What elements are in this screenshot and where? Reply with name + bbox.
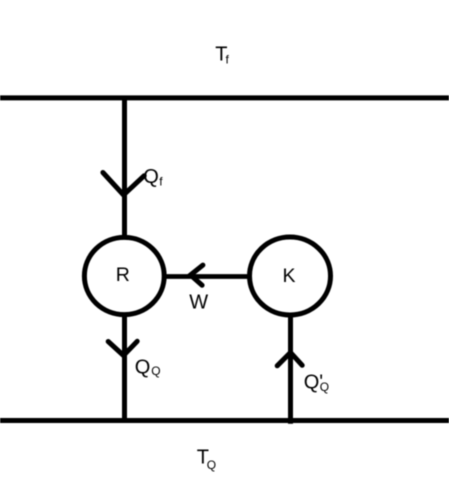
svg-text:K: K xyxy=(283,265,296,287)
svg-text:Q: Q xyxy=(320,380,329,394)
svg-text:Q: Q xyxy=(207,458,216,472)
svg-text:Q: Q xyxy=(143,166,159,188)
svg-text:Q: Q xyxy=(135,357,151,379)
svg-text:R: R xyxy=(116,264,130,286)
svg-text:Q: Q xyxy=(151,364,160,378)
svg-text:W: W xyxy=(189,292,208,314)
